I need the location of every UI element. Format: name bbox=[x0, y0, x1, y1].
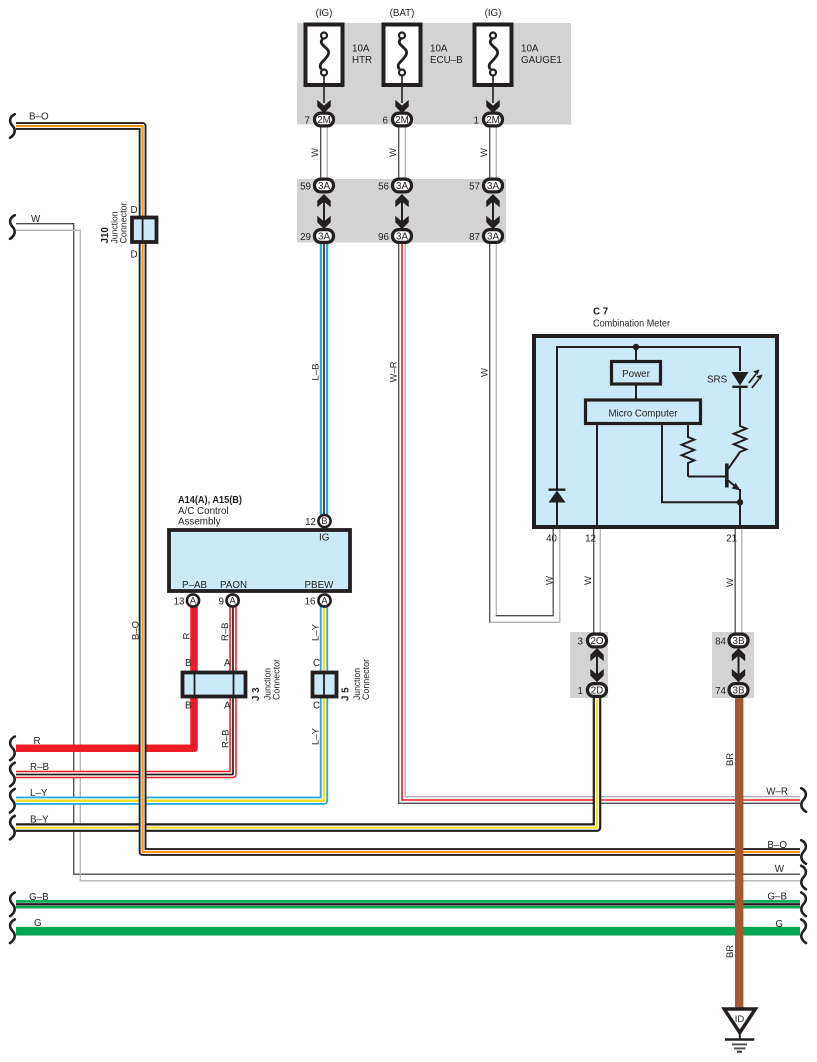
svg-text:3A: 3A bbox=[487, 181, 499, 192]
brace G left bbox=[10, 919, 15, 943]
svg-text:W: W bbox=[775, 864, 785, 875]
svg-text:IG: IG bbox=[319, 533, 329, 544]
svg-text:84: 84 bbox=[715, 637, 726, 648]
fuse element symbol bbox=[490, 33, 496, 39]
double arrow 2O-2D bbox=[596, 651, 598, 680]
svg-text:W: W bbox=[310, 148, 321, 157]
svg-text:J 3: J 3 bbox=[251, 687, 262, 701]
micro computer to emitter node wire bbox=[662, 424, 740, 502]
svg-text:R: R bbox=[182, 633, 193, 640]
wire W fuse3 to 3A bbox=[489, 127, 491, 179]
connector oval 3B pin 74 bbox=[729, 684, 748, 697]
brace G-B right bbox=[801, 893, 806, 917]
svg-text:3: 3 bbox=[578, 637, 584, 648]
pin 16 A bbox=[318, 594, 330, 606]
connector oval 2M pin 7 bbox=[315, 113, 334, 126]
svg-text:C 7: C 7 bbox=[593, 307, 609, 318]
Micro Computer box bbox=[586, 400, 701, 424]
arrow fuse HTR to 2M bbox=[323, 76, 325, 104]
fuse 10A GAUGE1 bbox=[474, 8, 562, 127]
svg-text:A: A bbox=[321, 596, 328, 606]
svg-text:ID: ID bbox=[735, 1014, 745, 1025]
svg-text:BR: BR bbox=[725, 945, 736, 958]
connector oval 3A pin 87 bbox=[484, 230, 503, 243]
junction connector J10 bbox=[100, 203, 157, 261]
svg-text:2M: 2M bbox=[317, 115, 331, 126]
arrow fuse GAUGE1 to 2M bbox=[492, 76, 494, 104]
brace B-Y left bbox=[10, 816, 15, 840]
svg-text:A: A bbox=[190, 596, 197, 606]
wire B-Y from left edge to connector 2D bbox=[16, 694, 597, 828]
wire G left edge to right edge bbox=[16, 927, 800, 936]
brace L-Y left bbox=[10, 789, 15, 813]
connector oval 3A pin 56 bbox=[393, 179, 412, 192]
junction dot emitter bbox=[737, 499, 743, 505]
svg-text:G–B: G–B bbox=[767, 892, 787, 903]
svg-text:12: 12 bbox=[585, 534, 596, 545]
brace W-R right bbox=[801, 788, 806, 812]
connector oval 2M pin 6 bbox=[393, 113, 412, 126]
connector 2O 2D bbox=[578, 634, 607, 697]
wire W left pass-through bbox=[16, 224, 800, 875]
connector oval 3A pin 96 bbox=[393, 230, 412, 243]
wire R from AC pin 13 via J3 to left edge bbox=[16, 601, 194, 748]
svg-text:B: B bbox=[185, 658, 192, 669]
brace R left bbox=[10, 737, 15, 761]
svg-text:3B: 3B bbox=[733, 686, 745, 697]
connector oval 2O pin 3 bbox=[588, 634, 607, 647]
left edge braces and labels bbox=[29, 112, 50, 930]
top rail bbox=[557, 347, 740, 489]
svg-text:Connector: Connector bbox=[272, 659, 283, 700]
brace B-O left bbox=[10, 114, 15, 138]
svg-text:96: 96 bbox=[378, 232, 389, 243]
svg-text:13: 13 bbox=[174, 597, 185, 608]
wire W from 87 3A down right up to meter pin 40 bbox=[489, 243, 491, 623]
svg-text:21: 21 bbox=[726, 534, 737, 545]
Power box bbox=[612, 362, 661, 385]
svg-text:B–O: B–O bbox=[29, 112, 49, 123]
brace R-B left bbox=[10, 763, 15, 787]
transistor Q bbox=[688, 464, 741, 528]
gray band connector 3A row bbox=[297, 179, 506, 243]
svg-text:HTR: HTR bbox=[352, 55, 372, 66]
wire L-B from 29 3A to AC pin B bbox=[320, 243, 328, 516]
svg-text:R–B: R–B bbox=[221, 730, 232, 748]
double arrow 3B 84-74 bbox=[738, 651, 740, 680]
svg-text:L–Y: L–Y bbox=[30, 788, 48, 799]
svg-text:2D: 2D bbox=[591, 686, 604, 697]
wire W fuse1 to 3A bbox=[320, 127, 322, 179]
svg-text:W: W bbox=[479, 148, 490, 157]
fuse element symbol bbox=[399, 33, 405, 39]
svg-text:12: 12 bbox=[305, 517, 316, 528]
svg-text:(IG): (IG) bbox=[316, 8, 333, 19]
wire L-Y from AC pin 16 via J5 to left edge bbox=[16, 601, 324, 801]
fuse element symbol bbox=[321, 33, 327, 39]
svg-text:B: B bbox=[321, 516, 327, 526]
svg-text:W–R: W–R bbox=[389, 361, 400, 382]
svg-text:G–B: G–B bbox=[29, 892, 49, 903]
connector oval 2M pin 1 bbox=[484, 113, 503, 126]
connector oval 3A pin 59 bbox=[315, 179, 334, 192]
svg-text:W: W bbox=[31, 214, 41, 225]
svg-text:7: 7 bbox=[305, 116, 310, 127]
svg-text:10A: 10A bbox=[352, 44, 370, 55]
svg-text:1: 1 bbox=[474, 116, 479, 127]
svg-text:L–Y: L–Y bbox=[311, 727, 322, 745]
connector 3A column 1 bbox=[300, 179, 333, 243]
resistor base bbox=[682, 424, 695, 477]
svg-text:B–Y: B–Y bbox=[30, 815, 49, 826]
svg-text:40: 40 bbox=[546, 534, 557, 545]
arrow fuse ECU-B to 2M bbox=[401, 76, 403, 104]
svg-text:A14(A), A15(B): A14(A), A15(B) bbox=[178, 495, 242, 506]
svg-text:C: C bbox=[313, 701, 320, 712]
wire R-B from AC pin 9 via J3 to left edge bbox=[16, 601, 233, 775]
brace W right bbox=[801, 866, 806, 890]
svg-text:3A: 3A bbox=[396, 181, 408, 192]
wire W meter pin 12 to 2O bbox=[593, 529, 595, 633]
svg-text:R–B: R–B bbox=[220, 623, 231, 641]
svg-text:57: 57 bbox=[469, 182, 480, 193]
fuse 10A ECU-B bbox=[383, 8, 464, 127]
ground ID bbox=[724, 1009, 755, 1052]
svg-text:3A: 3A bbox=[318, 232, 330, 243]
svg-text:3A: 3A bbox=[487, 232, 499, 243]
pin 13 A bbox=[187, 594, 199, 606]
svg-text:(IG): (IG) bbox=[485, 8, 502, 19]
gray band fuse row bbox=[297, 23, 571, 125]
double arrow 3A 57-87 bbox=[492, 196, 494, 226]
A/C Control Assembly bbox=[169, 495, 350, 608]
svg-text:B–O: B–O bbox=[767, 840, 787, 851]
svg-text:Connector: Connector bbox=[361, 659, 372, 700]
rotated wire labels bbox=[131, 148, 737, 958]
svg-text:59: 59 bbox=[300, 182, 311, 193]
svg-text:A/C Control: A/C Control bbox=[178, 506, 229, 517]
svg-text:2M: 2M bbox=[486, 115, 500, 126]
SRS LED bbox=[707, 370, 763, 389]
brace W left bbox=[10, 215, 15, 239]
svg-text:G: G bbox=[775, 919, 783, 930]
svg-text:SRS: SRS bbox=[707, 374, 728, 385]
svg-text:W: W bbox=[388, 148, 399, 157]
gray band connector 2O/2D bbox=[570, 632, 608, 698]
svg-text:L–B: L–B bbox=[311, 364, 322, 381]
wire W meter pin 21 to 3B bbox=[734, 529, 736, 633]
svg-text:R–B: R–B bbox=[30, 762, 50, 773]
svg-text:G: G bbox=[34, 918, 42, 929]
connector oval 3B pin 84 bbox=[729, 634, 748, 647]
svg-text:J 5: J 5 bbox=[341, 687, 352, 701]
svg-text:GAUGE1: GAUGE1 bbox=[521, 55, 562, 66]
svg-text:B: B bbox=[185, 701, 192, 712]
Combination Meter C7 bbox=[534, 307, 777, 545]
svg-text:PBEW: PBEW bbox=[305, 580, 335, 591]
svg-text:A: A bbox=[230, 596, 237, 606]
svg-text:P–AB: P–AB bbox=[182, 580, 208, 591]
svg-text:29: 29 bbox=[300, 232, 311, 243]
svg-text:3A: 3A bbox=[318, 181, 330, 192]
connector oval 3A pin 57 bbox=[484, 179, 503, 192]
svg-text:(BAT): (BAT) bbox=[390, 8, 415, 19]
connector 3B 3B bbox=[715, 634, 748, 697]
svg-text:3B: 3B bbox=[733, 636, 745, 647]
pin 12 B bbox=[318, 515, 330, 527]
right edge braces and labels bbox=[766, 787, 788, 931]
svg-text:3A: 3A bbox=[396, 232, 408, 243]
brace G right bbox=[801, 919, 806, 943]
svg-text:Connector: Connector bbox=[119, 203, 130, 244]
svg-text:ECU–B: ECU–B bbox=[430, 55, 463, 66]
svg-text:L–Y: L–Y bbox=[311, 623, 322, 641]
svg-text:Combination Meter: Combination Meter bbox=[593, 319, 671, 330]
svg-text:56: 56 bbox=[378, 182, 389, 193]
svg-text:16: 16 bbox=[305, 597, 316, 608]
wire B-O from left edge via J10 down to right edge bbox=[16, 126, 800, 852]
svg-text:2M: 2M bbox=[395, 115, 409, 126]
svg-text:Assembly: Assembly bbox=[178, 516, 221, 527]
svg-text:Power: Power bbox=[622, 369, 651, 380]
svg-text:74: 74 bbox=[715, 686, 726, 697]
svg-text:Micro Computer: Micro Computer bbox=[609, 409, 679, 420]
resistor LED chain bbox=[728, 387, 746, 469]
junction connector J5 bbox=[313, 658, 373, 712]
pin 9 A bbox=[227, 594, 239, 606]
svg-text:2O: 2O bbox=[590, 636, 603, 647]
svg-text:C: C bbox=[313, 658, 320, 669]
connector oval 3A pin 29 bbox=[315, 230, 334, 243]
svg-text:A: A bbox=[224, 658, 231, 669]
connector 3A column 2 bbox=[378, 179, 411, 243]
wire W fuse2 to 3A bbox=[398, 127, 400, 179]
junction dot top rail bbox=[633, 344, 639, 350]
svg-text:R: R bbox=[34, 736, 41, 747]
svg-text:D: D bbox=[131, 205, 138, 216]
svg-text:W: W bbox=[545, 576, 556, 585]
double arrow 3A 59-29 bbox=[323, 196, 325, 226]
svg-text:W: W bbox=[480, 368, 491, 377]
brace G-B left bbox=[10, 893, 15, 917]
svg-text:9: 9 bbox=[219, 597, 224, 608]
junction connector J3 bbox=[183, 658, 283, 712]
connector oval 2D pin 1 bbox=[588, 684, 607, 697]
wire G-B left edge to right edge bbox=[16, 900, 800, 908]
pin 12 wire inside bbox=[596, 424, 598, 527]
svg-text:87: 87 bbox=[469, 232, 480, 243]
double arrow 3A 56-96 bbox=[401, 196, 403, 226]
gray band connector 3B bbox=[712, 632, 754, 698]
wire BR from 3B to ground bbox=[735, 694, 743, 1009]
svg-text:W: W bbox=[583, 576, 594, 585]
svg-text:1: 1 bbox=[578, 686, 583, 697]
svg-text:W: W bbox=[725, 578, 736, 587]
svg-text:10A: 10A bbox=[430, 44, 448, 55]
fuse 10A HTR bbox=[305, 8, 373, 127]
svg-text:A: A bbox=[224, 701, 231, 712]
svg-text:6: 6 bbox=[383, 116, 389, 127]
svg-text:B–O: B–O bbox=[131, 621, 142, 640]
svg-text:BR: BR bbox=[725, 753, 736, 766]
svg-text:W–R: W–R bbox=[766, 787, 788, 798]
svg-text:10A: 10A bbox=[521, 44, 539, 55]
brace B-O right bbox=[801, 840, 806, 864]
wire W-R from 96 3A down and right to edge bbox=[399, 243, 800, 803]
connector 3A column 3 bbox=[469, 179, 502, 243]
svg-text:D: D bbox=[131, 250, 138, 261]
diode bbox=[549, 490, 566, 529]
svg-text:PAON: PAON bbox=[220, 580, 247, 591]
